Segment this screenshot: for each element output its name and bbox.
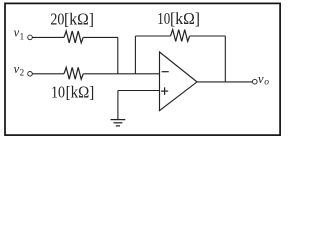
terminal v2 <box>28 72 33 77</box>
wire output <box>197 81 252 83</box>
wire v1 branch down to inverting node <box>117 37 119 73</box>
svg-text:[kΩ]: [kΩ] <box>66 82 95 101</box>
resistor R3 <box>171 30 190 42</box>
svg-text:o: o <box>264 78 269 88</box>
wire non-inverting input <box>118 90 160 92</box>
wire inverting node up to feedback <box>134 36 136 74</box>
svg-text:v: v <box>258 72 264 86</box>
op-amp inverting input marker <box>162 71 169 73</box>
resistor R2 <box>64 67 83 79</box>
wire feedback right segment <box>190 35 226 37</box>
svg-text:[kΩ]: [kΩ] <box>64 10 94 29</box>
resistor R1 <box>64 31 83 43</box>
svg-text:10: 10 <box>157 9 170 28</box>
wire R1 to branch point <box>83 36 118 38</box>
terminal vo <box>253 79 258 84</box>
wire v1 to R1 <box>32 36 64 38</box>
op-amp U1 <box>160 52 198 111</box>
svg-text:1: 1 <box>20 31 25 41</box>
svg-text:10: 10 <box>51 82 65 101</box>
ground <box>111 119 126 121</box>
terminal v1 <box>28 35 33 40</box>
wire feedback left segment <box>135 35 170 37</box>
wire v2 to R2 <box>32 73 64 75</box>
svg-text:20: 20 <box>50 10 64 29</box>
svg-text:[kΩ]: [kΩ] <box>170 9 200 28</box>
wire feedback down to output node <box>224 36 226 82</box>
wire down to ground <box>117 91 119 120</box>
wire R2 to op-amp inverting input <box>83 73 159 75</box>
op-amp non-inverting input marker <box>161 90 168 92</box>
svg-text:2: 2 <box>20 68 25 78</box>
